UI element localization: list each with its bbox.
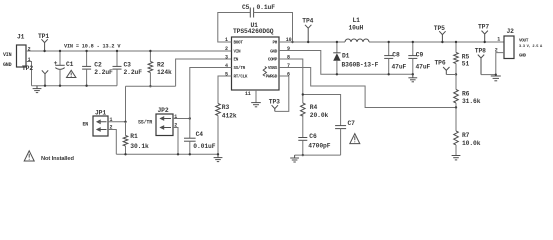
svg-text:EN: EN <box>83 122 89 128</box>
svg-text:11: 11 <box>245 91 251 97</box>
diode D1 B360B-13-F <box>333 41 378 76</box>
svg-text:TP3: TP3 <box>269 99 280 106</box>
svg-text:C1: C1 <box>66 61 74 68</box>
svg-text:TP4: TP4 <box>302 18 313 25</box>
svg-text:TP7: TP7 <box>478 23 489 30</box>
svg-text:TPS54260DGQ: TPS54260DGQ <box>233 28 274 35</box>
svg-text:J2: J2 <box>507 28 515 35</box>
svg-text:SS/TR: SS/TR <box>138 119 152 125</box>
svg-text:VIN = 10.8 - 13.2 V: VIN = 10.8 - 13.2 V <box>64 43 121 49</box>
wire bottom ground rail <box>116 153 218 155</box>
svg-text:C7: C7 <box>348 120 356 127</box>
svg-text:C4: C4 <box>196 131 204 138</box>
svg-text:COMP: COMP <box>268 58 278 63</box>
svg-text:VIN: VIN <box>234 49 242 54</box>
wire COMP pin8 down <box>279 59 303 103</box>
wire GND pin9 to output ground bus <box>279 51 413 75</box>
svg-text:TP6: TP6 <box>435 59 446 66</box>
svg-text:L1: L1 <box>353 17 361 24</box>
svg-text:3: 3 <box>225 54 228 60</box>
test point TP7 <box>478 23 489 43</box>
test point TP4 <box>302 18 313 44</box>
svg-text:R6: R6 <box>462 90 470 97</box>
resistor R6 <box>454 75 481 109</box>
pin 11 pad ground <box>245 90 261 107</box>
svg-text:1: 1 <box>497 36 500 42</box>
svg-text:R5: R5 <box>462 54 470 61</box>
wire JP2 pin1 <box>173 118 190 120</box>
svg-text:TP1: TP1 <box>38 33 49 40</box>
svg-text:J1: J1 <box>17 34 25 41</box>
svg-text:R3: R3 <box>222 104 230 111</box>
ground J2 <box>491 76 501 81</box>
wire VSNS pin7 to feedback divider <box>279 68 456 108</box>
inductor L1 10uH <box>345 17 369 42</box>
test point TP3 <box>269 99 280 112</box>
jumper JP2 SS/TR <box>138 107 177 136</box>
capacitor C7 (not installed) <box>335 120 360 155</box>
svg-text:C6: C6 <box>309 133 317 140</box>
svg-text:31.6k: 31.6k <box>462 98 481 105</box>
svg-text:VOUT: VOUT <box>519 38 529 43</box>
wire PH rail <box>279 41 345 43</box>
svg-text:RT/CLK: RT/CLK <box>234 75 248 80</box>
capacitor C8 <box>384 41 406 76</box>
wire EN bus <box>126 85 176 87</box>
svg-text:0.1uF: 0.1uF <box>257 4 276 11</box>
wire EN bus up to pin3 <box>176 59 232 86</box>
connector J1 <box>3 34 31 69</box>
resistor R4 <box>300 103 328 138</box>
wire J1 pin1 to ground bus <box>26 62 32 86</box>
legend not-installed triangle <box>24 151 74 162</box>
svg-text:C5: C5 <box>242 4 250 11</box>
svg-text:TP8: TP8 <box>475 47 486 54</box>
svg-text:PH: PH <box>272 40 277 45</box>
capacitor C3 <box>113 50 143 86</box>
svg-text:JP2: JP2 <box>158 107 169 114</box>
svg-text:R4: R4 <box>310 104 318 111</box>
svg-text:GND: GND <box>3 62 12 68</box>
op-amp-ic U1 TPS54260DGQ <box>225 22 292 90</box>
svg-text:9: 9 <box>287 46 290 52</box>
svg-text:+: + <box>54 60 58 67</box>
test point TP2 <box>22 65 48 87</box>
svg-text:47uF: 47uF <box>392 63 407 70</box>
svg-text:47uF: 47uF <box>416 63 431 70</box>
svg-text:2.2uF: 2.2uF <box>124 69 143 76</box>
capacitor C1 (polarized, not installed) <box>54 50 76 87</box>
svg-text:SS/TR: SS/TR <box>234 66 246 71</box>
capacitor C5 boot <box>218 4 294 43</box>
resistor R2 <box>148 50 172 88</box>
ground comp network <box>290 155 299 162</box>
resistor R1 <box>123 122 149 156</box>
svg-text:R7: R7 <box>462 132 470 139</box>
svg-text:GND: GND <box>519 53 527 58</box>
wire input ground bus <box>32 85 118 87</box>
svg-text:30.1k: 30.1k <box>130 143 149 150</box>
test point TP5 <box>434 25 446 43</box>
svg-text:51: 51 <box>462 61 470 68</box>
wire SS/TR pin4 vertical <box>190 68 232 139</box>
svg-text:10.0k: 10.0k <box>462 140 481 147</box>
svg-text:TP2: TP2 <box>22 65 33 72</box>
ground bottom rail <box>214 154 223 161</box>
ground R7 <box>452 156 461 160</box>
svg-text:PWRGD: PWRGD <box>266 75 278 80</box>
svg-text:4700pF: 4700pF <box>308 143 330 150</box>
svg-text:2: 2 <box>225 46 228 52</box>
resistor R3 <box>216 76 237 154</box>
svg-text:0.01uF: 0.01uF <box>193 143 215 150</box>
ground output bus <box>408 74 417 82</box>
capacitor C4 <box>184 131 216 156</box>
svg-text:C8: C8 <box>392 51 400 58</box>
wire EN bus down to JP1 <box>125 86 127 122</box>
wire COMP branch to C7 <box>303 95 341 126</box>
wire comp ground rail <box>295 154 341 156</box>
ground input <box>33 86 42 93</box>
svg-text:VSNS: VSNS <box>268 66 278 71</box>
wire PWRGD pin6 to TP3 <box>275 76 289 111</box>
svg-text:2.2uF: 2.2uF <box>94 69 113 76</box>
svg-text:D1: D1 <box>342 53 350 60</box>
svg-text:GND: GND <box>270 49 278 54</box>
wire VIN rail <box>26 50 232 52</box>
capacitor C9 <box>408 41 430 76</box>
wire J2 pin2 to ground <box>496 53 504 76</box>
svg-text:VIN: VIN <box>3 52 12 58</box>
wire JP1 pin1 <box>108 121 126 123</box>
wire JP1 pin2 to ground rail <box>108 130 116 155</box>
svg-text:3.3 V, 2.5 A: 3.3 V, 2.5 A <box>519 45 543 49</box>
test point TP1 <box>38 33 49 52</box>
resistor R5 <box>454 41 470 76</box>
svg-text:124k: 124k <box>157 69 172 76</box>
jumper JP1 EN <box>83 110 113 137</box>
svg-text:BOOT: BOOT <box>234 40 244 45</box>
svg-text:R1: R1 <box>130 133 138 140</box>
capacitor C2 <box>82 50 113 87</box>
svg-text:10uH: 10uH <box>349 24 364 31</box>
svg-text:C3: C3 <box>124 61 132 68</box>
connector J2 <box>495 28 543 59</box>
svg-text:B360B-13-F: B360B-13-F <box>342 62 379 69</box>
svg-text:20.0k: 20.0k <box>310 112 329 119</box>
svg-text:C9: C9 <box>416 51 424 58</box>
svg-text:C2: C2 <box>94 61 102 68</box>
test point TP6 <box>435 59 457 74</box>
svg-text:412k: 412k <box>222 113 237 120</box>
svg-text:EN: EN <box>234 58 239 63</box>
wire JP2 pin2 to ground rail <box>173 128 178 155</box>
svg-text:Not Installed: Not Installed <box>41 156 74 162</box>
svg-text:R2: R2 <box>157 61 165 68</box>
test point TP8 <box>475 47 497 75</box>
resistor R7 <box>454 108 481 156</box>
capacitor C6 <box>298 133 330 157</box>
